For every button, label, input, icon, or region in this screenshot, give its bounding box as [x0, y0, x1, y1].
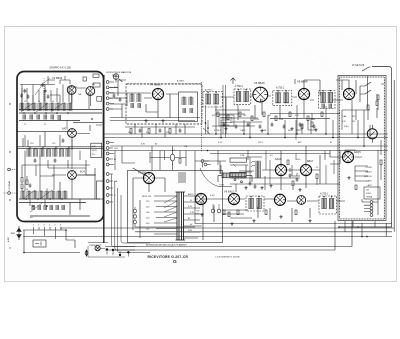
svg-text:C.G.N. DISEGNO N. 650 BIS: C.G.N. DISEGNO N. 650 BIS	[215, 256, 240, 258]
mid AF wiring 2	[210, 151, 340, 185]
svg-text:RETE 110: RETE 110	[142, 196, 152, 198]
grounds scattered	[144, 119, 147, 122]
tube stems mid	[67, 120, 96, 175]
right edge AC wire	[339, 67, 392, 228]
svg-text:L2: L2	[38, 101, 40, 103]
tick labels	[33, 225, 62, 227]
right bracket box	[364, 187, 380, 199]
bus y236.5	[23, 236, 392, 238]
svg-text:6.3 V: 6.3 V	[218, 142, 223, 144]
tuner small caps	[27, 94, 30, 98]
svg-text:1.5M: 1.5M	[240, 155, 245, 157]
s-curve wire	[200, 168, 232, 186]
bus y250	[105, 221, 335, 250]
osc coils	[130, 94, 134, 102]
bias network small parts	[212, 110, 262, 126]
shield box inner parts	[377, 95, 379, 100]
svg-text:0.5: 0.5	[270, 155, 273, 157]
switch arcs	[251, 161, 255, 167]
wire right edge heavy	[103, 75, 105, 243]
terminal labels	[114, 86, 119, 197]
svg-text:TERRA: TERRA	[366, 196, 373, 199]
trimmer arrow top	[35, 78, 50, 95]
shield dotted vertical	[201, 82, 203, 152]
svg-text:C.AVC: C.AVC	[240, 129, 246, 132]
bus y223.5	[195, 223, 392, 225]
svg-text:6AT6: 6AT6	[62, 127, 69, 131]
binder hole dots left margin	[9, 103, 11, 249]
dashed cal line	[43, 78, 45, 103]
tuner text smudges	[24, 84, 95, 219]
tube V1	[67, 86, 76, 95]
label box H.MOW	[91, 143, 102, 157]
electrolytic caps	[211, 209, 215, 213]
bus y231.8	[135, 231, 392, 233]
tuner lower banks	[19, 199, 100, 216]
svg-text:V1 6BA6: V1 6BA6	[52, 76, 63, 80]
svg-text:T2: T2	[44, 124, 46, 126]
svg-text:L3: L3	[52, 101, 54, 103]
tube V4 osc	[68, 171, 77, 180]
svg-text:T1: T1	[24, 124, 26, 126]
IF transformer T3	[273, 91, 292, 106]
mid AF labels	[240, 155, 318, 169]
transformer taps left	[154, 196, 177, 234]
svg-text:- AVC: - AVC	[366, 184, 372, 187]
svg-text:ANT: ANT	[11, 232, 16, 235]
svg-text:A.750.1: A.750.1	[320, 193, 329, 196]
coil bank D	[32, 205, 64, 210]
svg-text:V6 6AL5: V6 6AL5	[224, 190, 235, 194]
tube V11	[342, 151, 353, 162]
svg-text:P.U.: P.U.	[92, 154, 96, 156]
label box right lower	[97, 181, 105, 199]
IF transformer T3b	[319, 90, 336, 109]
verticals right of T1	[223, 85, 226, 138]
svg-text:L9: L9	[46, 189, 48, 191]
meter M1	[367, 129, 377, 139]
power transformer core	[176, 192, 186, 240]
bias caps	[223, 122, 226, 126]
drop wires between buses	[216, 100, 370, 146]
tube V13	[228, 193, 239, 204]
bank A junction dots	[23, 109, 93, 120]
bias ladder box	[219, 115, 234, 126]
IF wiring	[221, 96, 298, 134]
rect tube VR150	[143, 172, 154, 183]
svg-text:G: G	[173, 259, 177, 265]
power fan taps	[164, 196, 177, 222]
svg-text:CAL: CAL	[78, 93, 82, 96]
svg-text:6AQ5: 6AQ5	[354, 150, 361, 154]
svg-text:FONO: FONO	[366, 193, 372, 195]
antenna marks	[231, 78, 296, 85]
tuner enclosure G.208	[17, 72, 104, 222]
trimmer arrows bank C	[23, 190, 52, 212]
right wiring	[355, 150, 378, 215]
bus y146	[110, 145, 388, 147]
coil bank C	[21, 191, 67, 199]
speaker wiring top right	[304, 80, 349, 100]
tuner terminals col3	[106, 173, 109, 204]
jack circles mid	[201, 160, 204, 163]
svg-text:A.750.1: A.750.1	[205, 89, 213, 92]
volume pots	[230, 158, 247, 162]
tube V14	[274, 194, 285, 205]
svg-text:6C4: 6C4	[80, 170, 85, 174]
power box	[128, 171, 223, 243]
svg-text:VR150: VR150	[138, 171, 146, 175]
tube V12 rect	[195, 193, 206, 204]
tube V9	[275, 164, 286, 175]
svg-text:H.M: H.M	[92, 146, 96, 148]
svg-text:ALIMENTATORE ANODICA E FILAMEN: ALIMENTATORE ANODICA E FILAMENTI	[146, 244, 187, 247]
svg-text:R.EQ: R.EQ	[344, 126, 349, 128]
svg-text:AVC: AVC	[114, 86, 118, 89]
svg-text:AVC: AVC	[298, 141, 302, 144]
CSL rect	[93, 74, 99, 78]
bead chain	[133, 209, 136, 212]
tube V2	[86, 87, 95, 96]
speaker assembly	[85, 243, 130, 257]
svg-text:A.INT: A.INT	[7, 236, 10, 242]
tube V10	[300, 164, 311, 175]
margin terminal TERRA	[8, 192, 11, 195]
bus y150.5	[104, 150, 388, 152]
tube V8	[343, 88, 354, 99]
shield box (hatched)	[338, 76, 386, 221]
coil bank A (upper)	[20, 103, 72, 111]
svg-text:OSC: OSC	[114, 148, 119, 150]
wires x270-340	[270, 113, 340, 118]
right tap labels	[188, 193, 195, 232]
CH box	[83, 77, 87, 81]
bank B dots	[29, 146, 70, 148]
svg-text:V5 6BA6: V5 6BA6	[254, 81, 265, 85]
tuner top wiring	[20, 76, 90, 109]
right terminals	[370, 201, 373, 204]
mid AF grounds	[244, 186, 247, 189]
svg-text:C.7: C.7	[172, 150, 175, 152]
svg-text:V4 6BE6: V4 6BE6	[150, 83, 161, 87]
svg-text:250 V: 250 V	[258, 142, 264, 144]
svg-text:0.25: 0.25	[342, 121, 346, 123]
svg-text:osc: osc	[30, 217, 33, 219]
IF transformer T4	[246, 196, 264, 211]
svg-text:A.750.4: A.750.4	[235, 85, 244, 88]
tube V15	[297, 196, 306, 205]
filter choke	[218, 173, 252, 182]
af couple parts	[289, 173, 292, 177]
antenna terminal	[11, 226, 21, 240]
tuner top caps	[23, 89, 26, 93]
filter box	[33, 240, 46, 247]
svg-text:6BA7: 6BA7	[307, 159, 314, 163]
right coil box	[179, 92, 198, 122]
resistor in box	[376, 101, 378, 106]
svg-text:0.1: 0.1	[231, 118, 234, 120]
svg-text:PRESA ALTOP.: PRESA ALTOP.	[90, 244, 103, 247]
text smudges mid	[212, 115, 333, 144]
svg-text:FONO: FONO	[366, 167, 373, 169]
wires below mixer	[110, 118, 200, 138]
tube V3	[68, 129, 77, 138]
tube V7	[298, 88, 309, 99]
svg-text:L8: L8	[26, 189, 28, 191]
mixer box	[126, 84, 202, 124]
bus y246.5	[105, 221, 352, 247]
resistor cluster left mid	[21, 178, 23, 183]
faint scan texture	[20, 29, 390, 108]
phone jack J1	[113, 74, 119, 80]
svg-text:G.TONDAT: G.TONDAT	[8, 180, 11, 191]
tap labels	[142, 196, 152, 231]
bias network resistors	[217, 112, 219, 117]
bus y228	[60, 227, 395, 229]
svg-text:A 188.1: A 188.1	[177, 80, 185, 83]
right edge wire 2	[386, 80, 394, 237]
bank C dots	[25, 198, 63, 207]
svg-text:500: 500	[366, 190, 369, 192]
tube V5 mixer	[152, 88, 163, 99]
bus junction dots	[207, 133, 365, 151]
res by lamp	[179, 159, 181, 164]
svg-text:RICEVITORE G.207-CR: RICEVITORE G.207-CR	[148, 255, 189, 259]
mid drops to lower section	[115, 146, 325, 224]
coil bank A lower row	[23, 115, 60, 121]
ps wiring	[133, 178, 203, 240]
paper sheet	[5, 27, 397, 282]
lamp wiring	[133, 146, 186, 178]
mixer wiring	[110, 80, 178, 118]
input caps	[113, 93, 116, 97]
bus y137.5	[104, 137, 388, 139]
svg-text:LT.GE N.05: LT.GE N.05	[352, 64, 365, 67]
svg-text:100: 100	[312, 119, 315, 121]
tuner terminals col2	[106, 141, 109, 166]
tube V6 IF amp	[253, 87, 268, 102]
svg-text:MODUL: MODUL	[364, 176, 373, 178]
svg-text:6.3V: 6.3V	[210, 195, 215, 197]
svg-text:G.706: G.706	[219, 185, 224, 187]
bus wires upper	[19, 110, 102, 121]
selector label rows	[364, 167, 373, 187]
IF transformer T1	[203, 92, 223, 108]
right small rects	[93, 83, 100, 87]
svg-text:GRUPPO A.F. G.205: GRUPPO A.F. G.205	[50, 66, 72, 69]
svg-text:C12: C12	[52, 143, 55, 145]
coil bank B (middle)	[27, 149, 70, 157]
terminal stubs col2 col3	[109, 143, 114, 203]
trimmer arrows bank A	[21, 103, 63, 112]
tuner mid wiring	[16, 122, 103, 148]
tuner inside extra wires	[22, 87, 95, 206]
corner dots	[357, 226, 359, 228]
mid AF wiring	[195, 146, 362, 190]
choke	[256, 161, 260, 178]
svg-text:R.750.4: R.750.4	[214, 130, 221, 132]
svg-text:25: 25	[316, 167, 318, 169]
svg-text:ANOD: ANOD	[188, 193, 194, 196]
terminal drop wires	[111, 174, 150, 253]
components left of meter	[296, 113, 316, 139]
IF transformer T2	[234, 89, 251, 104]
IF transformer T5	[319, 196, 337, 214]
mains switch	[362, 67, 371, 71]
drops from box bottom	[345, 221, 375, 237]
bus y134	[104, 133, 388, 135]
lower wiring	[207, 199, 345, 222]
svg-text:CAL: CAL	[114, 180, 118, 183]
dashed mech link	[127, 83, 201, 85]
margin terminal FONO	[8, 168, 11, 171]
bottom left drop	[24, 230, 80, 253]
svg-text:MOW: MOW	[92, 150, 97, 152]
filament transformer	[179, 172, 185, 183]
svg-text:C10: C10	[30, 143, 33, 145]
tuner terminals col1	[106, 81, 109, 111]
svg-text:A.750.1: A.750.1	[276, 87, 285, 90]
lamp LP	[170, 154, 174, 161]
svg-text:220: 220	[256, 119, 259, 121]
svg-text:0.05: 0.05	[295, 115, 299, 117]
lower af extra	[221, 151, 340, 193]
transformer taps right	[184, 196, 204, 238]
svg-text:L1: L1	[24, 101, 26, 103]
svg-text:RICEVITRICE MARCONI: RICEVITRICE MARCONI	[107, 71, 132, 74]
svg-text:1M: 1M	[268, 115, 271, 117]
psu caps	[249, 181, 252, 185]
switch contacts in box	[342, 76, 384, 118]
terminal stubs col1	[109, 82, 114, 109]
box mid text cluster	[342, 115, 356, 128]
svg-text:C.AE: C.AE	[342, 115, 347, 118]
osc tube wiring	[52, 160, 95, 199]
resistor cluster lower	[223, 210, 225, 215]
mixer lower components	[130, 129, 132, 134]
